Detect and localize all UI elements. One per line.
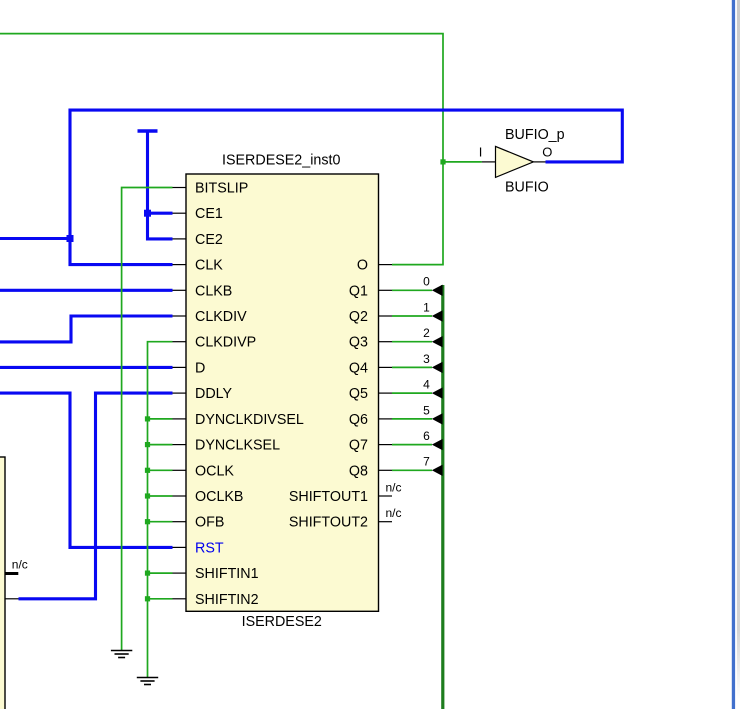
pin stub Q3 xyxy=(379,341,393,343)
component left partial body xyxy=(0,457,5,709)
svg-text:5: 5 xyxy=(423,403,430,417)
svg-text:BUFIO: BUFIO xyxy=(505,180,549,196)
svg-text:n/c: n/c xyxy=(386,480,402,494)
pin stub Q5 xyxy=(379,392,393,394)
junction ground net at DYNCLKDIVSEL xyxy=(145,416,150,421)
bus tap arrow Q2 xyxy=(432,310,443,321)
svg-text:Q4: Q4 xyxy=(349,360,368,376)
svg-text:3: 3 xyxy=(423,352,430,366)
junction ground net at OFB xyxy=(145,519,150,524)
svg-text:D: D xyxy=(195,360,205,376)
pin stub Q6 xyxy=(379,418,393,420)
pin stub CLKDIVP xyxy=(173,341,187,343)
pin stub D xyxy=(173,366,187,368)
wire bus tap Q2 xyxy=(392,315,432,317)
junction net CLK xyxy=(67,235,74,242)
svg-text:SHIFTOUT1: SHIFTOUT1 xyxy=(289,489,368,505)
svg-text:n/c: n/c xyxy=(12,558,28,572)
ground symbol for BITSLIP net xyxy=(111,651,132,658)
bus tap arrow Q3 xyxy=(432,336,443,347)
pin stub CLKB xyxy=(173,289,187,291)
svg-text:n/c: n/c xyxy=(386,506,402,520)
svg-text:DYNCLKDIVSEL: DYNCLKDIVSEL xyxy=(195,412,304,428)
pin stub SHIFTOUT1 xyxy=(379,495,393,497)
svg-text:SHIFTIN1: SHIFTIN1 xyxy=(195,566,259,582)
svg-text:I: I xyxy=(479,145,483,160)
wire ground branch to OCLKB xyxy=(148,495,173,497)
wire bus tap Q4 xyxy=(392,366,432,368)
wire net RST xyxy=(0,393,173,547)
svg-text:Q6: Q6 xyxy=(349,412,368,428)
tie-off bar terminal xyxy=(138,129,158,132)
svg-text:OCLK: OCLK xyxy=(195,463,234,479)
pin stub OCLK xyxy=(173,469,187,471)
svg-text:CE2: CE2 xyxy=(195,232,223,248)
svg-text:O: O xyxy=(357,258,368,274)
svg-text:6: 6 xyxy=(423,429,430,443)
wire bus tap Q8 xyxy=(392,469,432,471)
wire net CLK branch to left edge xyxy=(0,237,70,240)
ground symbol for CLKDIVP net xyxy=(137,678,158,685)
wire net CE: vertical with tie-off bar xyxy=(148,131,173,239)
pin stub left component lower pin xyxy=(6,598,19,600)
svg-text:2: 2 xyxy=(423,326,430,340)
pin stub OCLKB xyxy=(173,495,187,497)
bus tap arrow Q8 xyxy=(432,465,443,476)
pin stub Q4 xyxy=(379,366,393,368)
svg-text:Q2: Q2 xyxy=(349,309,368,325)
no-connect pin bar left component xyxy=(6,572,19,575)
svg-text:OFB: OFB xyxy=(195,515,224,531)
wire ground branch to OFB xyxy=(148,521,173,523)
pin stub Q7 xyxy=(379,444,393,446)
wire net CE branch to CE1 xyxy=(148,212,173,215)
junction on net O at BUFIO input xyxy=(440,159,445,164)
wire net DDLY to left component xyxy=(19,393,173,599)
pin stub CLKDIV xyxy=(173,315,187,317)
wire bus tap Q7 xyxy=(392,444,432,446)
pin stub CE2 xyxy=(173,238,187,240)
svg-text:0: 0 xyxy=(423,275,430,289)
svg-text:Q5: Q5 xyxy=(349,386,368,402)
svg-text:ISERDESE2: ISERDESE2 xyxy=(242,614,322,630)
svg-text:CE1: CE1 xyxy=(195,206,223,222)
wire ground net CLKDIVP/DYNCLKDIVSEL/DYNCLKSEL/OCLK/OCLKB/OFB/SHIFTIN1/SHIFTIN2 xyxy=(148,342,173,677)
pin stub BITSLIP xyxy=(173,187,187,189)
svg-text:Q7: Q7 xyxy=(349,438,368,454)
wire net O: green from top-left to O pin xyxy=(0,34,443,265)
pin stub Q1 xyxy=(379,289,393,291)
svg-text:RST: RST xyxy=(195,540,224,556)
wire ground branch to DYNCLKSEL xyxy=(148,444,173,446)
wire net CLKDIV xyxy=(0,316,173,342)
pin stub O xyxy=(379,264,393,266)
svg-text:BUFIO_p: BUFIO_p xyxy=(505,127,565,143)
svg-text:DYNCLKSEL: DYNCLKSEL xyxy=(195,438,280,454)
wire ground branch to SHIFTIN2 xyxy=(148,598,173,600)
svg-text:4: 4 xyxy=(423,378,430,392)
bus tap arrow Q1 xyxy=(432,285,443,296)
pin stub Q2 xyxy=(379,315,393,317)
junction ground net at SHIFTIN1 xyxy=(145,571,150,576)
pin stub CLK xyxy=(173,264,187,266)
pin stub BUFIO output O xyxy=(533,161,545,163)
wire bus tap Q6 xyxy=(392,418,432,420)
svg-text:OCLKB: OCLKB xyxy=(195,489,243,505)
pin stub SHIFTIN1 xyxy=(173,572,187,574)
bus tap arrow Q5 xyxy=(432,387,443,398)
bus tap arrow Q6 xyxy=(432,413,443,424)
wire bus tap Q1 xyxy=(392,289,432,291)
wire ground branch to SHIFTIN1 xyxy=(148,572,173,574)
buffer BUFIO_p symbol xyxy=(496,146,534,177)
svg-text:BITSLIP: BITSLIP xyxy=(195,181,248,197)
svg-text:CLKB: CLKB xyxy=(195,283,232,299)
svg-text:SHIFTIN2: SHIFTIN2 xyxy=(195,592,259,608)
pin stub Q8 xyxy=(379,469,393,471)
component U ISERDESE2_inst0 body xyxy=(186,174,379,611)
svg-text:CLK: CLK xyxy=(195,258,223,274)
junction ground net at OCLK xyxy=(145,468,150,473)
svg-text:ISERDESE2_inst0: ISERDESE2_inst0 xyxy=(222,153,340,169)
svg-text:Q8: Q8 xyxy=(349,463,368,479)
junction ground net at SHIFTIN2 xyxy=(145,596,150,601)
pin stub OFB xyxy=(173,521,187,523)
svg-text:7: 7 xyxy=(423,455,430,469)
pin stub DYNCLKSEL xyxy=(173,444,187,446)
svg-text:CLKDIVP: CLKDIVP xyxy=(195,335,256,351)
junction net CE at CE1 xyxy=(144,210,151,217)
svg-text:1: 1 xyxy=(423,300,430,314)
pin stub CE1 xyxy=(173,212,187,214)
bus tap arrow Q7 xyxy=(432,439,443,450)
pin stub BUFIO input I xyxy=(482,161,496,163)
svg-text:CLKDIV: CLKDIV xyxy=(195,309,247,325)
wire bus tap Q3 xyxy=(392,341,432,343)
pin stub DYNCLKDIVSEL xyxy=(173,418,187,420)
pin stub RST xyxy=(173,546,187,548)
pin stub DDLY xyxy=(173,392,187,394)
bus Q outputs vertical xyxy=(441,285,444,709)
wire ground branch to OCLK xyxy=(148,469,173,471)
svg-text:Q3: Q3 xyxy=(349,335,368,351)
junction ground net at OCLKB xyxy=(145,493,150,498)
pin stub SHIFTIN2 xyxy=(173,598,187,600)
wire bus tap Q5 xyxy=(392,392,432,394)
svg-text:DDLY: DDLY xyxy=(195,386,233,402)
wire BUFIO input branch xyxy=(443,161,482,163)
window border shadow xyxy=(737,0,740,700)
wire ground net for BITSLIP xyxy=(122,188,173,651)
svg-text:O: O xyxy=(542,145,552,160)
pin stub SHIFTOUT2 xyxy=(379,521,393,523)
bus tap arrow Q4 xyxy=(432,362,443,373)
svg-text:SHIFTOUT2: SHIFTOUT2 xyxy=(289,515,368,531)
wire ground branch to DYNCLKDIVSEL xyxy=(148,418,173,420)
window border blue line xyxy=(732,0,735,709)
wire net CLK: BUFIO output loop to CLK pin xyxy=(70,110,622,265)
junction ground net at DYNCLKSEL xyxy=(145,442,150,447)
wire net D xyxy=(0,366,173,369)
svg-text:Q1: Q1 xyxy=(349,283,368,299)
wire net CLKB xyxy=(0,289,173,292)
